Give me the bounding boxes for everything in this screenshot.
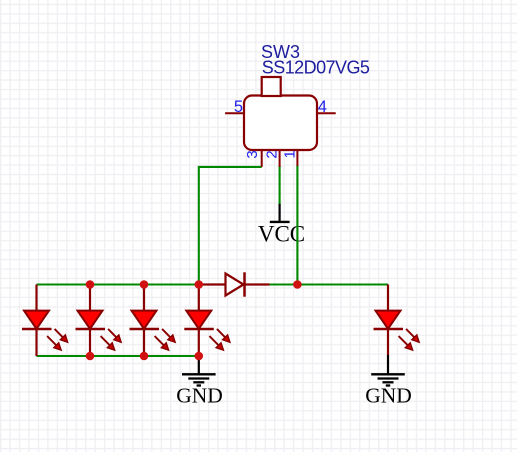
junction dot bottom rail 3 [195, 352, 204, 361]
junction dot top rail 2 [140, 280, 149, 289]
svg-text:GND: GND [365, 384, 412, 408]
junction dot top rail 1 [86, 280, 95, 289]
svg-text:1: 1 [281, 150, 298, 158]
power flag VCC [270, 204, 290, 222]
diode [199, 272, 270, 296]
svg-text:2: 2 [264, 150, 281, 158]
wire: switch pin2 to VCC [279, 166, 281, 205]
wire: LED bottom rail [37, 355, 199, 357]
LED 4 [184, 285, 230, 357]
junction dot bottom rail 1 [86, 352, 95, 361]
wire: diode cathode to node B [270, 283, 298, 285]
ground GND left [182, 356, 216, 386]
pin number 4 [318, 98, 327, 116]
label VCC [258, 221, 305, 246]
switch SW3 [225, 77, 336, 167]
wire: vertical down to node A [198, 166, 200, 285]
LED 1 [22, 285, 68, 357]
label GND right [365, 384, 412, 408]
wire: LED top rail [37, 283, 199, 285]
pin number 3 [244, 150, 261, 158]
junction node A [195, 280, 204, 289]
pin number 5 [234, 98, 243, 116]
svg-text:4: 4 [318, 98, 327, 116]
label GND left [176, 384, 223, 408]
junction node B [293, 280, 302, 289]
svg-text:SS12D07VG5: SS12D07VG5 [262, 58, 370, 78]
LED 2 [76, 285, 122, 357]
wire: switch pin3 to left bend [199, 166, 262, 168]
wire: node B to right LED [297, 283, 388, 285]
label SW3 [261, 42, 300, 62]
svg-text:5: 5 [234, 98, 243, 116]
pin number 2 [264, 150, 281, 158]
LED 3 [130, 285, 176, 357]
LED 5 [374, 285, 420, 356]
wire: switch pin1 down to node B [296, 166, 298, 285]
junction dot bottom rail 2 [140, 352, 149, 361]
label SS12D07VG5 [262, 58, 370, 78]
pin number 1 [281, 150, 298, 158]
svg-text:GND: GND [176, 384, 223, 408]
ground GND right [371, 355, 405, 386]
svg-text:3: 3 [244, 150, 261, 158]
